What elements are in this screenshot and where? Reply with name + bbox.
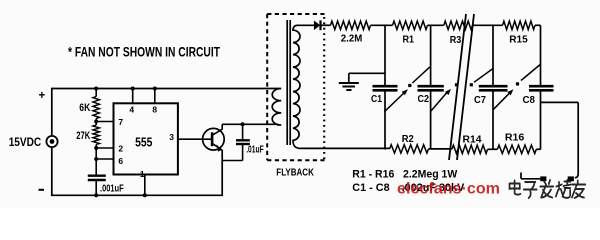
label R2 xyxy=(402,133,414,145)
resistor 6K xyxy=(93,89,100,122)
svg-text:27K: 27K xyxy=(76,130,90,142)
capacitor .01uF xyxy=(222,124,250,160)
label R15 xyxy=(509,33,528,45)
spark gap G4 upper blade to C8 xyxy=(521,65,540,81)
svg-text:3: 3 xyxy=(169,132,174,142)
label 555 xyxy=(135,135,152,149)
spark gap G2 contact dot xyxy=(455,83,458,86)
svg-text:R1: R1 xyxy=(403,33,415,45)
svg-text:555: 555 xyxy=(135,135,152,149)
label 15VDC xyxy=(9,135,42,149)
node junction cap/ground rail xyxy=(94,193,98,197)
svg-text:R14: R14 xyxy=(463,133,482,145)
svg-text:.001uF: .001uF xyxy=(100,183,124,194)
wire R16 to C8 bottom xyxy=(536,148,540,150)
capacitor C8 xyxy=(529,25,554,149)
wire bottom rail ground xyxy=(51,194,223,196)
spark gap G3 contact dot xyxy=(470,83,473,86)
wire left vertical supply xyxy=(51,88,53,196)
spark gap G2 blade from C2 xyxy=(431,87,453,111)
svg-text:R3: R3 xyxy=(450,34,462,46)
spark gap G1 blade from C1 xyxy=(384,87,409,111)
wire pin 7 xyxy=(96,121,113,123)
node junction pin1/ground rail xyxy=(143,193,147,197)
label C7 xyxy=(474,94,486,106)
label C8 xyxy=(523,94,536,106)
svg-text:R2: R2 xyxy=(402,133,414,145)
svg-text:R16: R16 xyxy=(505,132,525,144)
svg-text:+: + xyxy=(39,90,46,102)
label pin 8 xyxy=(152,104,157,114)
wire emitter to ground rail xyxy=(221,150,223,196)
wire top rail +15V xyxy=(52,88,277,90)
wire R15 to C8 top xyxy=(535,24,541,26)
label .001uF xyxy=(100,183,124,194)
svg-text:* FAN NOT SHOWN IN CIRCUIT: * FAN NOT SHOWN IN CIRCUIT xyxy=(68,45,221,60)
watermark elecfans.com xyxy=(397,181,500,198)
svg-text:C7: C7 xyxy=(474,94,486,106)
transformer T1 core xyxy=(287,20,290,145)
wire pin 2 xyxy=(96,147,113,149)
label - terminal xyxy=(39,189,45,191)
wire collector to primary xyxy=(222,124,278,129)
label 27K xyxy=(76,130,90,142)
label pin 3 xyxy=(169,132,174,142)
svg-text:8: 8 xyxy=(152,104,157,114)
label pin 7 xyxy=(118,117,123,127)
label pin 4 xyxy=(129,104,134,114)
break mark omitted stages xyxy=(449,14,474,160)
label pin 6 xyxy=(118,156,123,166)
pin 8 stub xyxy=(154,89,156,104)
wire R1 to R3 xyxy=(428,24,444,26)
label C1 xyxy=(371,93,382,105)
source J1 15VDC input jack xyxy=(46,136,57,147)
resistor R3 xyxy=(444,21,473,29)
label pin 1 xyxy=(140,169,145,179)
label + terminal xyxy=(39,90,46,102)
wire R3 to R15 xyxy=(473,24,503,26)
svg-text:4: 4 xyxy=(129,104,134,114)
resistor R14 xyxy=(452,145,488,153)
resistor R15 xyxy=(503,21,536,29)
svg-text:6: 6 xyxy=(118,156,123,166)
label R1 xyxy=(403,33,415,45)
spark gap G1 contact dot xyxy=(408,84,411,87)
transistor Q1 NPN xyxy=(203,128,225,151)
label pin 2 xyxy=(118,144,123,154)
pin 1 stub xyxy=(144,175,146,196)
capacitor C2 xyxy=(418,25,444,149)
resistor R2 xyxy=(390,145,429,153)
label R3 xyxy=(450,34,462,46)
wire R14 to R16 xyxy=(488,148,498,150)
label FLYBACK xyxy=(276,168,314,179)
svg-text:15VDC: 15VDC xyxy=(9,135,42,149)
svg-text:2.2M: 2.2M xyxy=(341,33,363,45)
spark gap G4 blade from C7 xyxy=(493,88,515,110)
resistor R1 xyxy=(393,21,428,29)
inductor primary winding xyxy=(272,89,281,126)
wire pin 3 to base xyxy=(178,138,212,140)
node junction rail/6K xyxy=(94,87,98,91)
resistor 2.2M xyxy=(331,21,371,29)
label C2 xyxy=(418,93,430,105)
svg-text:6K: 6K xyxy=(79,102,90,114)
electrode output gap right xyxy=(568,176,574,181)
svg-text:C2: C2 xyxy=(418,93,430,105)
op-amp U1 555 timer box xyxy=(114,103,178,174)
wire down to timing capacitor xyxy=(95,148,97,175)
resistor R16 xyxy=(497,145,536,153)
watermark chinese characters xyxy=(510,180,586,198)
diode D1 xyxy=(314,20,321,30)
wire left electrode lead xyxy=(521,173,540,179)
node junction rail/pin4 xyxy=(131,87,135,91)
svg-text:R1 - R16 2.2Meg 1W: R1 - R16 2.2Meg 1W xyxy=(352,168,458,180)
label R values xyxy=(352,168,458,180)
node junction 27K/pin2 xyxy=(94,146,98,150)
label R14 xyxy=(463,133,482,145)
label R16 xyxy=(505,132,525,144)
label 2.2M xyxy=(341,33,363,45)
node junction pin6 xyxy=(94,157,98,161)
pin 4 stub xyxy=(132,89,134,104)
capacitor C7 xyxy=(479,25,508,149)
wire pin 6 xyxy=(96,158,113,160)
svg-text:.01uF: .01uF xyxy=(246,145,264,156)
label .01uF xyxy=(246,145,264,156)
capacitor C1 xyxy=(373,25,398,149)
spark gap G4 contact dot xyxy=(516,82,519,85)
inductor secondary winding xyxy=(293,25,301,148)
svg-text:elecfans·com: elecfans·com xyxy=(397,181,500,198)
wire R2 to break xyxy=(429,148,452,150)
electrode output gap left xyxy=(540,176,546,181)
svg-text:R15: R15 xyxy=(509,33,528,45)
wire C8 bottom branch to output xyxy=(541,102,579,177)
flyback dashed enclosure xyxy=(267,14,324,160)
node junction collector/.01uF xyxy=(241,122,245,126)
resistor 27K xyxy=(93,122,100,149)
svg-text:2: 2 xyxy=(118,144,123,154)
node junction rail/pin8 xyxy=(153,87,157,91)
spark gap G1 upper blade to C2 xyxy=(412,67,430,83)
svg-text:C8: C8 xyxy=(523,94,536,106)
wire secondary top to diode xyxy=(298,24,315,26)
svg-text:7: 7 xyxy=(118,117,123,127)
label 6K xyxy=(79,102,90,114)
svg-text:FLYBACK: FLYBACK xyxy=(276,168,314,179)
label C values xyxy=(352,182,465,194)
capacitor .001uF xyxy=(88,176,106,196)
label FAN note xyxy=(68,45,221,60)
spark gap G3 upper blade to C7 xyxy=(474,69,493,83)
wire secondary bottom to C1 bottom xyxy=(300,147,390,149)
svg-text:C1: C1 xyxy=(371,93,382,105)
wire 2.2M to R1 xyxy=(371,24,393,26)
wire diode to 2.2M xyxy=(321,24,331,26)
ground xyxy=(339,73,385,90)
node junction 6K/27K/pin7 xyxy=(94,120,98,124)
